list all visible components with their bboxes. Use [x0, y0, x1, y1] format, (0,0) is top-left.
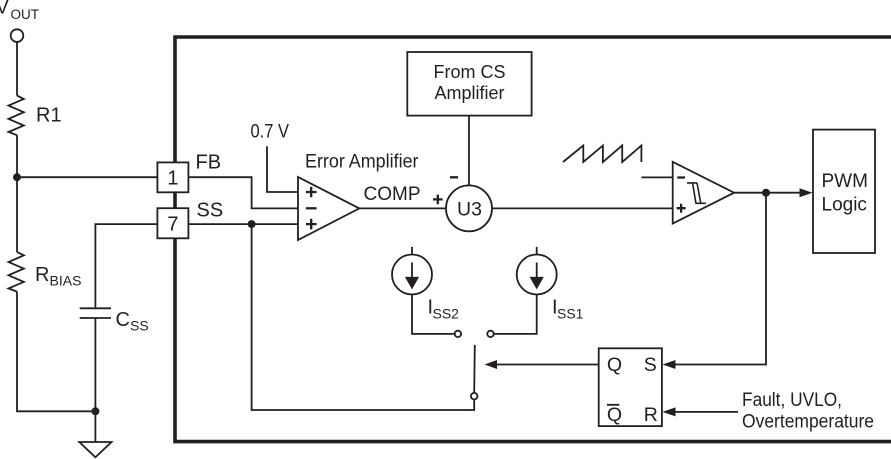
svg-text:BIAS: BIAS — [50, 273, 82, 289]
sawtooth ramp waveform — [563, 146, 641, 163]
svg-text:Fault, UVLO,: Fault, UVLO, — [742, 390, 842, 411]
wire CSS to ground node — [94, 318, 96, 411]
node VOUT label — [0, 0, 39, 22]
node COMP — [364, 184, 421, 205]
PWM Logic box — [813, 130, 875, 253]
wire SS node to switch common — [252, 224, 475, 410]
svg-text:S: S — [644, 354, 657, 376]
node comparator output junction dot — [762, 189, 770, 197]
svg-text:SS2: SS2 — [433, 306, 460, 322]
svg-text:Q: Q — [607, 354, 622, 376]
wire 0.7V to error amp top input — [267, 146, 298, 192]
wire ground node down — [94, 411, 96, 442]
switch S1 blade — [473, 345, 476, 393]
wire U3 to PWM comparator — [492, 207, 673, 209]
svg-text:R: R — [35, 264, 49, 286]
wire node A to FB pin — [17, 176, 157, 178]
svg-text:COMP: COMP — [364, 184, 421, 205]
wire U3 to From CS Amplifier box — [468, 116, 470, 186]
svg-text:OUT: OUT — [11, 7, 40, 22]
resistor RBIAS — [9, 252, 82, 292]
svg-text:7: 7 — [167, 214, 178, 236]
svg-text:From CS: From CS — [434, 62, 506, 82]
capacitor CSS — [80, 308, 149, 333]
svg-text:R1: R1 — [36, 105, 62, 127]
svg-text:R: R — [644, 404, 658, 426]
wire fault signals to latch R input — [675, 411, 738, 413]
wire RBIAS to ground node — [17, 292, 95, 412]
pin 7 SS box — [157, 200, 223, 239]
node SS junction dot — [248, 220, 256, 228]
wire error amp output to U3 — [359, 207, 446, 209]
svg-text:0.7 V: 0.7 V — [251, 122, 290, 143]
svg-text:FB: FB — [196, 152, 222, 174]
switch throw contact left — [455, 331, 461, 337]
latch U5 SR — [599, 348, 662, 426]
wire ISS1 to switch throw — [494, 295, 537, 334]
svg-text:SS1: SS1 — [557, 306, 584, 322]
arrowhead into PWM Logic — [800, 188, 813, 197]
svg-text:1: 1 — [167, 168, 178, 190]
switch common contact — [471, 393, 478, 400]
svg-text:SS: SS — [197, 200, 224, 222]
arrowhead at switch control — [485, 360, 498, 369]
resistor R1 — [9, 96, 62, 136]
wire VOUT to R1 — [16, 42, 18, 96]
svg-text:Amplifier: Amplifier — [434, 83, 504, 103]
current source ISS1 — [517, 247, 584, 322]
arrowhead into R input — [663, 407, 676, 416]
pin 1 FB box — [157, 152, 221, 193]
ground — [79, 442, 111, 457]
current source ISS2 — [392, 247, 459, 322]
summing junction U3 — [433, 177, 492, 231]
svg-text:Error Amplifier: Error Amplifier — [305, 152, 419, 173]
arrowhead into S input — [663, 360, 676, 369]
svg-text:Overtemperature: Overtemperature — [742, 412, 874, 433]
svg-text:Logic: Logic — [822, 194, 867, 215]
svg-text:SS: SS — [130, 318, 149, 334]
node A junction dot — [13, 173, 21, 181]
wire FB to error amp inverting input — [188, 177, 298, 208]
node 0.7V reference — [251, 122, 290, 143]
wire SS pin to error amp bottom input — [188, 223, 298, 225]
wire latch Q to switch control — [497, 364, 599, 366]
node fault label — [742, 390, 874, 433]
svg-text:V: V — [0, 0, 9, 19]
svg-text:U3: U3 — [457, 198, 482, 220]
wire SS line to CSS — [95, 224, 157, 307]
wire ramp to comparator inverting input — [641, 176, 672, 178]
op-amp U4 PWM comparator — [673, 162, 734, 224]
wire comparator output to PWM Logic — [734, 192, 800, 194]
wire comparator output to latch S input — [675, 193, 766, 365]
svg-text:C: C — [116, 309, 130, 331]
IC boundary box — [175, 37, 891, 442]
From CS Amplifier box — [407, 52, 531, 116]
VOUT terminal — [11, 29, 24, 42]
svg-text:Q: Q — [607, 404, 622, 426]
wire ISS2 to switch throw — [412, 295, 455, 334]
switch throw contact right — [487, 331, 493, 337]
wire R1 to RBIAS — [16, 135, 18, 252]
op-amp U2 error amplifier — [298, 152, 419, 241]
ground node junction dot — [91, 407, 99, 415]
svg-text:PWM: PWM — [822, 171, 868, 192]
